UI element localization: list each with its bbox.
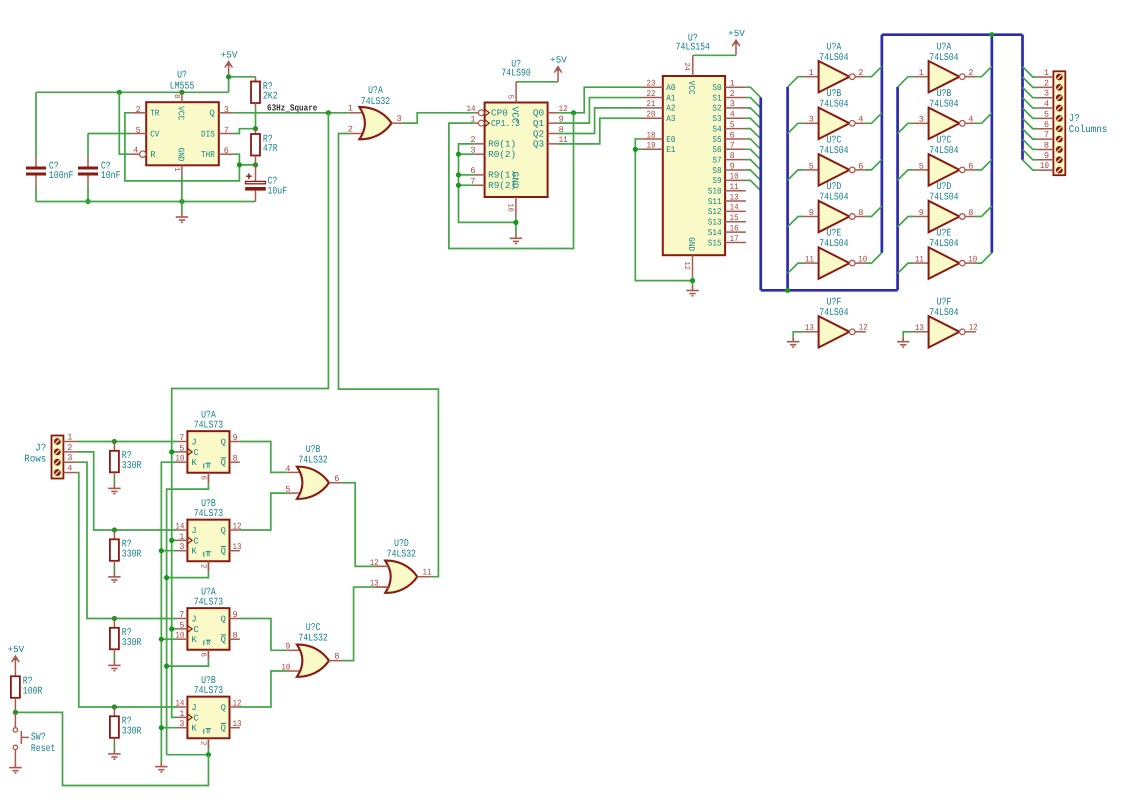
svg-text:3: 3 bbox=[179, 542, 184, 552]
svg-text:LM555: LM555 bbox=[170, 82, 195, 93]
svg-text:6: 6 bbox=[858, 161, 863, 171]
connector J? Rows body bbox=[52, 436, 64, 479]
wire LS90 Q2 to A2 bbox=[558, 108, 642, 134]
svg-text:74LS73: 74LS73 bbox=[194, 421, 223, 432]
ff4 pin 2 reset bottom bbox=[207, 738, 209, 748]
svg-text:2: 2 bbox=[858, 68, 863, 78]
ff2 pin 13 Q-bar bbox=[230, 550, 240, 552]
junction row3 resistor bbox=[112, 616, 117, 621]
svg-text:U?B: U?B bbox=[937, 89, 952, 100]
svg-text:14: 14 bbox=[730, 203, 739, 213]
wire reset chain ff1 bbox=[207, 473, 209, 483]
ff4 pin 14 J bbox=[177, 706, 187, 708]
label R? ref bbox=[122, 451, 132, 462]
junction clock chain bbox=[169, 538, 174, 543]
svg-text:Q: Q bbox=[210, 109, 215, 119]
resistor R? 2K2 bbox=[255, 77, 257, 82]
svg-text:TR: TR bbox=[150, 109, 160, 119]
junction K chain bbox=[159, 637, 164, 642]
wire R9(2) stub bbox=[459, 184, 475, 186]
LS154 pin 24 VCC bbox=[692, 55, 694, 76]
wire R pin to rail bbox=[119, 92, 130, 154]
label C? ref bbox=[101, 162, 111, 173]
svg-text:7: 7 bbox=[1044, 130, 1049, 140]
wire inverter U?A output to bus (col2) bbox=[975, 66, 992, 76]
svg-text:74LS04: 74LS04 bbox=[819, 99, 848, 110]
junction THR node a bbox=[237, 162, 242, 167]
wire U?C output to U?D pin13 bbox=[343, 587, 376, 661]
inverter U?E 74LS04 input stub (col1) bbox=[804, 262, 819, 264]
LS90 pin 3 R0(2) bbox=[474, 153, 484, 155]
555 pin 1 GND bbox=[181, 165, 183, 175]
label R? ref bbox=[263, 82, 273, 93]
label R? ref bbox=[23, 677, 33, 688]
wire inverter U?E output to bus (col1) bbox=[865, 253, 882, 263]
ground symbol 555 bbox=[176, 212, 188, 222]
wire reset ff3 bbox=[207, 650, 209, 660]
svg-text:S7: S7 bbox=[712, 155, 721, 165]
svg-text:12: 12 bbox=[859, 323, 868, 333]
wire bus to inverter U?A input (col1) bbox=[788, 77, 804, 87]
J? Columns pin 3 bbox=[1023, 87, 1038, 97]
inverter U?E 74LS04 (col2) bbox=[929, 247, 966, 278]
inverter U?B 74LS04 (col2) bbox=[929, 108, 966, 139]
ff2 reset marker bbox=[203, 552, 205, 557]
junction clock chain bbox=[169, 626, 174, 631]
resistor R? 100R bbox=[14, 671, 16, 676]
wire +5V rail top bbox=[36, 91, 229, 93]
svg-text:S9: S9 bbox=[712, 176, 721, 186]
junction reset ff4 bbox=[206, 752, 211, 757]
bus vertical D (right inverter outputs) bbox=[990, 35, 993, 253]
label R? ref bbox=[122, 717, 132, 728]
svg-text:GND: GND bbox=[176, 148, 186, 162]
wire feedback to U?A pin2 bbox=[339, 134, 439, 577]
svg-text:DIS: DIS bbox=[201, 129, 215, 139]
svg-text:2: 2 bbox=[1044, 78, 1049, 88]
junction bus bottom bbox=[785, 288, 790, 293]
U?E pin 10 output (col2) bbox=[965, 262, 975, 264]
svg-text:J?: J? bbox=[35, 444, 46, 455]
svg-text:21: 21 bbox=[647, 99, 656, 109]
J? Columns pin 2 bbox=[1023, 77, 1038, 87]
bus top rail bbox=[882, 33, 1023, 36]
svg-text:5: 5 bbox=[179, 443, 184, 453]
inverter U?C 74LS04 input stub (col1) bbox=[804, 169, 819, 171]
U?D pin 11 output bbox=[417, 576, 431, 578]
wire U?D pin12 stub bbox=[376, 565, 390, 567]
svg-text:6: 6 bbox=[198, 652, 207, 657]
wire clock stub bbox=[172, 539, 177, 541]
junction R9(2) bbox=[456, 183, 461, 188]
wire S3 to bus bbox=[746, 118, 761, 128]
svg-text:11: 11 bbox=[423, 568, 432, 578]
wire S8 to bus bbox=[746, 170, 761, 180]
svg-text:74LS04: 74LS04 bbox=[929, 193, 958, 204]
svg-text:23: 23 bbox=[647, 79, 656, 89]
label value 330R bbox=[122, 726, 142, 737]
svg-text:5: 5 bbox=[730, 120, 735, 130]
inverter U?A 74LS04 (col1) bbox=[819, 61, 856, 92]
U?C pin 6 output (col2) bbox=[965, 169, 975, 171]
inverter U?C 74LS04 (col1) bbox=[819, 154, 856, 185]
svg-text:330R: 330R bbox=[122, 726, 142, 737]
svg-text:18: 18 bbox=[647, 130, 656, 140]
label R? ref bbox=[122, 628, 132, 639]
svg-text:13: 13 bbox=[233, 719, 242, 729]
junction row1 resistor bbox=[112, 439, 117, 444]
J? Rows pin 1 bbox=[64, 441, 78, 443]
wire CV to 10nF bbox=[88, 133, 131, 135]
svg-text:74LS04: 74LS04 bbox=[819, 53, 848, 64]
J? Columns pin 1 bbox=[1023, 67, 1038, 77]
wire bus to inverter U?D input (col2) bbox=[898, 217, 914, 227]
U?D pin 8 output (col2) bbox=[965, 216, 975, 218]
inverter U?D 74LS04 (col1) bbox=[819, 201, 856, 232]
LS154 pin 14 S12 bbox=[725, 210, 746, 212]
svg-text:1: 1 bbox=[730, 79, 735, 89]
wire inverter U?D output to bus (col1) bbox=[865, 206, 882, 216]
or-gate U?B 74LS32 bbox=[297, 467, 329, 499]
svg-text:S10: S10 bbox=[708, 187, 722, 197]
LS154 pin 3 S2 bbox=[725, 107, 746, 109]
junction reset node bbox=[13, 710, 18, 715]
ff1 pin 9 Q bbox=[230, 441, 240, 443]
inverter U?D 74LS04 input stub (col1) bbox=[804, 216, 819, 218]
svg-text:11: 11 bbox=[730, 182, 739, 192]
svg-text:U?F: U?F bbox=[827, 297, 842, 308]
svg-text:A2: A2 bbox=[666, 104, 675, 114]
junction +5V node bbox=[226, 74, 231, 79]
svg-text:2: 2 bbox=[730, 89, 735, 99]
LS154 pin 5 S4 bbox=[725, 128, 746, 130]
svg-text:74LS04: 74LS04 bbox=[819, 308, 848, 319]
ff3 pin 8 Q-bar bbox=[230, 638, 240, 640]
svg-text:R: R bbox=[206, 551, 210, 558]
svg-text:2: 2 bbox=[198, 564, 207, 569]
svg-text:330R: 330R bbox=[122, 461, 142, 472]
svg-text:13: 13 bbox=[730, 192, 739, 202]
LS90 pin 6 R9(1) bbox=[474, 174, 484, 176]
junction K chain bbox=[159, 548, 164, 553]
U?A pin 2 output (col2) bbox=[965, 76, 975, 78]
svg-text:9: 9 bbox=[919, 208, 924, 218]
U?D pin 8 output (col1) bbox=[855, 216, 865, 218]
svg-text:S11: S11 bbox=[708, 197, 722, 207]
junction DIS node bbox=[253, 126, 258, 131]
svg-text:1: 1 bbox=[1044, 68, 1049, 78]
wire inverter U?B output to bus (col2) bbox=[975, 113, 992, 123]
svg-text:74LS32: 74LS32 bbox=[361, 97, 390, 108]
wire LS90 VCC to +5V bbox=[516, 81, 558, 83]
IC U? 74LS90 body bbox=[485, 103, 548, 198]
wire LS90 Q1 to A1 bbox=[558, 98, 642, 124]
svg-text:6: 6 bbox=[730, 130, 735, 140]
junction K chain bbox=[159, 725, 164, 730]
LS90 pin 11 Q3 bbox=[548, 143, 558, 145]
ff3 pin 7 J bbox=[177, 618, 187, 620]
svg-text:1: 1 bbox=[172, 167, 180, 172]
J? Columns pin 7 bbox=[1023, 129, 1038, 139]
wire S2 to bus bbox=[746, 108, 761, 118]
555 pin 6 THR bbox=[219, 153, 234, 155]
svg-text:+5V: +5V bbox=[550, 54, 567, 65]
U?B pin 4 output (col2) bbox=[965, 122, 975, 124]
svg-text:U?A: U?A bbox=[827, 42, 842, 53]
svg-text:E0: E0 bbox=[666, 135, 675, 145]
svg-text:7: 7 bbox=[179, 433, 184, 443]
wire LS154 gnd pin bbox=[692, 276, 694, 286]
LS154 pin 6 S5 bbox=[725, 138, 746, 140]
wire inverter U?C output to bus (col1) bbox=[865, 160, 882, 170]
svg-text:13: 13 bbox=[233, 542, 242, 552]
junction 555 gnd bbox=[179, 199, 184, 204]
wire S4 to bus bbox=[746, 129, 761, 139]
wire ff2 Q to U?B pin5 bbox=[240, 493, 287, 530]
555 pin 8 VCC bbox=[181, 92, 183, 102]
svg-text:+5V: +5V bbox=[728, 28, 745, 39]
svg-text:2: 2 bbox=[67, 443, 72, 453]
svg-text:C: C bbox=[193, 713, 198, 723]
svg-text:74LS73: 74LS73 bbox=[194, 598, 223, 609]
or-gate U?A 74LS32 bbox=[359, 107, 391, 139]
ff1 pin 5 C clock bbox=[177, 451, 187, 453]
svg-text:U?B: U?B bbox=[827, 89, 842, 100]
label R? ref bbox=[263, 134, 273, 145]
wire clock stub bbox=[172, 628, 177, 630]
inverter U?C 74LS04 input stub (col2) bbox=[914, 169, 929, 171]
U?A pin 2 output (col1) bbox=[855, 76, 865, 78]
svg-text:4: 4 bbox=[858, 115, 863, 125]
svg-text:1: 1 bbox=[179, 709, 184, 719]
svg-text:7: 7 bbox=[224, 126, 229, 136]
svg-text:10: 10 bbox=[281, 662, 290, 672]
svg-text:8: 8 bbox=[334, 652, 339, 662]
svg-text:2K2: 2K2 bbox=[263, 91, 278, 102]
svg-text:S15: S15 bbox=[708, 238, 722, 248]
or-gate U?C 74LS32 bbox=[297, 645, 329, 677]
inverter U?F 74LS04 input stub (col1) bbox=[804, 331, 819, 333]
svg-text:74LS04: 74LS04 bbox=[819, 239, 848, 250]
bus vertical from S outputs bbox=[759, 98, 762, 291]
inverter U?F 74LS04 (col1) bbox=[819, 316, 856, 347]
ground symbol 330R row1 bbox=[108, 484, 120, 494]
svg-text:9: 9 bbox=[809, 208, 814, 218]
junction R9(1) bbox=[456, 172, 461, 177]
label value 330R bbox=[122, 461, 142, 472]
or-gate U?A 74LS32 input stubs bbox=[350, 112, 364, 114]
svg-text:U?D: U?D bbox=[394, 539, 409, 550]
svg-text:Q: Q bbox=[221, 438, 226, 448]
wire K stub bbox=[161, 727, 177, 729]
bus vertical C (right inverter inputs) bbox=[896, 87, 899, 290]
ff1 pin 8 Q-bar bbox=[230, 461, 240, 463]
ff2 pin 1 C clock bbox=[177, 539, 187, 541]
svg-text:74LS32: 74LS32 bbox=[387, 550, 416, 561]
LS154 pin 22 A1 bbox=[642, 97, 663, 99]
junction 10nF gnd bbox=[85, 199, 90, 204]
svg-text:74LS73: 74LS73 bbox=[194, 509, 223, 520]
svg-text:CP0: CP0 bbox=[491, 108, 508, 119]
LS90 pin 2 R0(1) bbox=[474, 143, 484, 145]
power +5V flag (LS90) bbox=[550, 54, 567, 82]
U?E pin 10 output (col1) bbox=[855, 262, 865, 264]
junction LS90 gnd bbox=[513, 220, 518, 225]
power +5V flag (reset) bbox=[8, 644, 25, 672]
svg-text:4: 4 bbox=[1044, 99, 1049, 109]
svg-text:17: 17 bbox=[730, 234, 739, 244]
LS154 pin 10 S9 bbox=[725, 179, 746, 181]
svg-text:11: 11 bbox=[805, 255, 814, 265]
svg-text:Q: Q bbox=[221, 458, 226, 468]
svg-text:8: 8 bbox=[968, 208, 973, 218]
LS154 pin 18 E0 bbox=[642, 138, 663, 140]
wire S1 to bus bbox=[746, 98, 761, 108]
wire ff1 Q to U?B pin4 bbox=[240, 442, 287, 473]
inverter U?B 74LS04 input stub (col2) bbox=[914, 122, 929, 124]
LS90 pin 7 R9(2) bbox=[474, 184, 484, 186]
flip-flop U?B 74LS73 body (ff4) bbox=[187, 697, 229, 739]
svg-text:S12: S12 bbox=[708, 207, 722, 217]
svg-text:1: 1 bbox=[809, 68, 814, 78]
label value 330R bbox=[122, 638, 142, 649]
inverter U?C 74LS04 (col2) bbox=[929, 154, 966, 185]
svg-text:S4: S4 bbox=[712, 124, 721, 134]
ff2 pin 3 K bbox=[177, 550, 187, 552]
svg-text:100nF: 100nF bbox=[49, 171, 74, 182]
wire LS90 Q0 to LS154 A0 bbox=[558, 87, 642, 113]
LS154 pin 13 S11 bbox=[725, 200, 746, 202]
wire row1 bbox=[78, 441, 177, 443]
or-gate U?D 74LS32 input stubs bbox=[376, 565, 391, 567]
LS90 pin 5 VCC bbox=[515, 82, 517, 103]
svg-text:A3: A3 bbox=[666, 114, 675, 124]
inverter U?A 74LS04 input stub (col1) bbox=[804, 76, 819, 78]
bus vertical A (left inverter inputs) bbox=[786, 87, 789, 290]
resistor R? 47R bbox=[255, 129, 257, 134]
svg-text:U?A: U?A bbox=[937, 42, 952, 53]
svg-text:SW?: SW? bbox=[31, 732, 46, 743]
svg-text:6: 6 bbox=[198, 475, 207, 480]
svg-text:330R: 330R bbox=[122, 638, 142, 649]
svg-text:74LS04: 74LS04 bbox=[929, 146, 958, 157]
svg-text:U?C: U?C bbox=[937, 136, 952, 147]
wire 555 gnd pin to rail bbox=[181, 176, 183, 202]
svg-text:VCC: VCC bbox=[509, 107, 520, 125]
svg-text:5: 5 bbox=[285, 485, 290, 495]
svg-text:Q1: Q1 bbox=[533, 118, 545, 129]
label R? ref bbox=[122, 540, 132, 551]
svg-text:GND: GND bbox=[509, 172, 520, 190]
svg-text:3: 3 bbox=[919, 115, 924, 125]
555 pin 3 Q bbox=[219, 112, 234, 114]
svg-text:11: 11 bbox=[915, 255, 924, 265]
U?C pin 8 output bbox=[329, 660, 343, 662]
ground symbol switch bbox=[9, 763, 21, 773]
ff2 pin 14 J bbox=[177, 529, 187, 531]
J? Columns pin 5 bbox=[1023, 108, 1038, 118]
LS154 pin 20 A3 bbox=[642, 117, 663, 119]
svg-text:15: 15 bbox=[730, 213, 739, 223]
resistor R? 330R (row1) bbox=[113, 442, 115, 451]
svg-text:63Hz_Square: 63Hz_Square bbox=[267, 102, 318, 113]
wire +5V to R2K2 bbox=[229, 77, 256, 93]
svg-text:A1: A1 bbox=[666, 93, 675, 103]
svg-text:3: 3 bbox=[730, 99, 735, 109]
LS154 pin 12 GND bbox=[692, 255, 694, 276]
wire R2K2 bottom to 63Hz bbox=[255, 103, 257, 108]
flip-flop U?A 74LS73 body (ff1) bbox=[187, 431, 229, 473]
svg-text:9: 9 bbox=[233, 610, 238, 620]
svg-text:5: 5 bbox=[136, 126, 141, 136]
svg-text:J: J bbox=[191, 438, 196, 448]
inverter U?B 74LS04 input stub (col1) bbox=[804, 122, 819, 124]
svg-text:J: J bbox=[191, 615, 196, 625]
junction bus top bbox=[989, 32, 994, 37]
junction THR node b bbox=[253, 162, 258, 167]
label C? ref bbox=[49, 162, 59, 173]
wire 555 gnd drop bbox=[181, 202, 183, 213]
svg-text:Q: Q bbox=[221, 547, 226, 557]
junction R0(2) bbox=[456, 152, 461, 157]
or-gate U?B 74LS32 input stubs bbox=[287, 471, 302, 473]
svg-text:13: 13 bbox=[805, 323, 814, 333]
svg-text:22: 22 bbox=[647, 89, 656, 99]
svg-text:Q2: Q2 bbox=[533, 128, 544, 139]
wire Q0 cascade to CP1 bbox=[449, 113, 574, 249]
LS154 pin 8 S7 bbox=[725, 159, 746, 161]
LS154 pin 2 S1 bbox=[725, 97, 746, 99]
svg-text:14: 14 bbox=[467, 104, 476, 114]
svg-text:U?D: U?D bbox=[937, 182, 952, 193]
ff1 reset marker bbox=[203, 463, 205, 468]
svg-text:S1: S1 bbox=[712, 93, 721, 103]
svg-text:2: 2 bbox=[968, 68, 973, 78]
svg-text:Rows: Rows bbox=[24, 455, 46, 466]
svg-text:10nF: 10nF bbox=[101, 171, 121, 182]
svg-text:4: 4 bbox=[67, 464, 72, 474]
IC U? LM555 body bbox=[146, 102, 219, 165]
junction LS154 gnd bbox=[690, 278, 695, 283]
wire inverter U?C output to bus (col2) bbox=[975, 160, 992, 170]
inverter U?F 74LS04 input stub (col2) bbox=[914, 331, 929, 333]
inverter U?E 74LS04 input stub (col2) bbox=[914, 262, 929, 264]
svg-text:J: J bbox=[191, 703, 196, 713]
U?B pin 6 output bbox=[329, 482, 343, 484]
wire bus to inverter U?B input (col2) bbox=[898, 123, 914, 133]
svg-text:S2: S2 bbox=[712, 104, 721, 114]
wire bus to inverter U?C input (col2) bbox=[898, 170, 914, 180]
wire LS90 gnd pin down bbox=[515, 218, 517, 234]
wire K stub bbox=[161, 638, 177, 640]
svg-text:47R: 47R bbox=[263, 144, 278, 155]
ground symbol LS154 bbox=[686, 286, 698, 296]
svg-text:J?: J? bbox=[1069, 114, 1080, 125]
svg-text:Q: Q bbox=[221, 615, 226, 625]
svg-text:8: 8 bbox=[858, 208, 863, 218]
J? Rows pin 2 bbox=[64, 451, 78, 453]
svg-text:3: 3 bbox=[67, 453, 72, 463]
ground symbol U?F (col1) bbox=[787, 337, 799, 347]
svg-text:74LS32: 74LS32 bbox=[298, 633, 327, 644]
svg-text:10: 10 bbox=[1040, 161, 1049, 171]
svg-text:K: K bbox=[191, 458, 197, 468]
LS154 pin 9 S8 bbox=[725, 169, 746, 171]
wire K stub bbox=[161, 550, 177, 552]
LS154 pin 11 S10 bbox=[725, 190, 746, 192]
svg-text:4: 4 bbox=[968, 115, 973, 125]
svg-text:14: 14 bbox=[175, 698, 184, 708]
